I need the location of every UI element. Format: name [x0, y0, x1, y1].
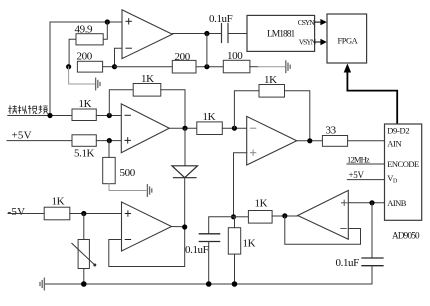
wire ground drop from left-200 junction [69, 67, 95, 84]
svg-text:AIN: AIN [387, 139, 401, 149]
svg-text:500: 500 [120, 167, 136, 179]
text input label 模拟视频 (analog video) [8, 105, 47, 114]
resistor R 200 (mid) [172, 60, 196, 73]
variable resistor RV1 [72, 240, 97, 269]
视 [29, 105, 31, 114]
频 [39, 105, 41, 111]
svg-text:D9-D2: D9-D2 [387, 125, 409, 135]
wire U5 feedback loop [285, 216, 361, 245]
wire diode branch down from U2 output [184, 128, 186, 166]
node U1 output [204, 31, 209, 36]
node U5 input [282, 213, 287, 218]
node center junction [231, 214, 236, 219]
wire U1 output [172, 33, 221, 35]
node minus-row junction [112, 64, 117, 69]
wire 100 to ground [250, 66, 258, 68]
IC U6 LM1881 [247, 15, 317, 51]
wire U2 feedback right down to output [161, 90, 185, 128]
svg-text:LM1881: LM1881 [267, 30, 296, 40]
svg-text:1K: 1K [79, 98, 92, 110]
wire U2 feedback up and over [109, 90, 133, 116]
ground G4 (bottom rail) [40, 278, 44, 290]
wire AD9050 to FPGA with up arrow [347, 70, 397, 124]
svg-text:AINB: AINB [387, 198, 407, 208]
node rail / cap2 [206, 281, 212, 287]
wire AINB junction down to cap [371, 203, 373, 258]
wire var resistor bottom lead [83, 269, 85, 285]
wire 1K to U4 minus [222, 127, 246, 129]
resistor R 49.9 [76, 34, 103, 45]
resistor R 1K -5V [44, 207, 70, 220]
op-amp U4 [247, 116, 297, 165]
node U2 plus [107, 138, 112, 143]
wire long vertical input line [49, 22, 51, 116]
svg-text:200: 200 [175, 51, 191, 63]
wire U3 output [172, 226, 185, 228]
wire U2 output [169, 127, 197, 129]
wire var resistor top lead [83, 214, 85, 240]
wire cap3 down to rail [44, 266, 372, 284]
svg-text:200: 200 [77, 51, 93, 63]
wire 1K vert bottom lead [234, 254, 236, 284]
svg-text:-5V: -5V [8, 206, 26, 218]
wire junction to 1K U5 [234, 216, 249, 218]
resistor R 100 [223, 60, 250, 73]
wire 33 to AIN [348, 140, 385, 142]
svg-text:33: 33 [326, 125, 337, 137]
svg-text:ENCODE: ENCODE [387, 159, 419, 169]
svg-text:1K: 1K [243, 238, 256, 250]
resistor R 1K video [72, 109, 96, 121]
diode D1 [172, 166, 198, 178]
node video/vertical junction [47, 113, 52, 118]
svg-text:1K: 1K [255, 198, 268, 210]
node rail / 1K vertical [232, 281, 238, 287]
svg-text:1K: 1K [141, 73, 154, 85]
wire 5.1K to U2 plus [96, 140, 121, 142]
resistor R 1K U2 feedback [133, 84, 161, 97]
resistor R 1K U2 to U4 [197, 122, 223, 135]
wire U4 plus input jog [234, 153, 247, 217]
wire VSYN arrow to FPGA [315, 39, 327, 45]
svg-text:VSYN: VSYN [299, 38, 317, 47]
svg-text:+5V: +5V [12, 130, 32, 142]
resistor R 33 [322, 136, 347, 147]
wire U4 output [297, 140, 323, 142]
op-amp U5 (mirrored) [298, 190, 349, 239]
svg-text:+5V: +5V [349, 170, 365, 180]
svg-text:1K: 1K [52, 196, 65, 208]
node U2 minus [107, 113, 112, 118]
wire U5 plus to AINB [348, 202, 384, 204]
svg-text:100: 100 [227, 50, 243, 62]
wire -5V row [8, 213, 44, 215]
wire CSYN arrow to FPGA [315, 19, 327, 25]
svg-text:1K: 1K [264, 74, 277, 86]
wire 49.9 right lead up to +input [103, 22, 107, 39]
wire U3 feedback loop [109, 227, 185, 267]
svg-text:12MHz: 12MHz [347, 155, 370, 165]
wire U1 minus input lead [115, 48, 123, 66]
resistor R 1K to U5 [248, 211, 272, 224]
resistor R 5.1K [72, 135, 96, 147]
wire top +input run from vertical to U1 [50, 21, 122, 23]
模 [9, 105, 11, 114]
wire +5V to VD [347, 179, 384, 181]
node U3 output [182, 224, 187, 229]
node at +input / 49.9 tap [105, 19, 110, 24]
resistor R 1K vertical [228, 228, 240, 254]
resistor R 1K U4 feedback [259, 85, 285, 98]
resistor R 500 (vertical) [103, 157, 116, 183]
wire left-200 to minus junction [103, 66, 115, 68]
wire 1K to U2 minus [96, 115, 121, 117]
op-amp U1 [122, 10, 172, 59]
node under U1 output [204, 64, 209, 69]
wire 49.9 left lead down [69, 39, 76, 66]
resistor R 200 (left) [77, 61, 102, 72]
wire junction to cap [209, 217, 234, 234]
svg-text:49.9: 49.9 [75, 24, 94, 36]
ground G1 [96, 78, 100, 90]
wire U4 feedback right down to output [285, 91, 310, 141]
wire C1 to LM1881 [228, 33, 247, 35]
wire 1K vert top lead [234, 217, 236, 228]
node rail / var resistor [81, 281, 87, 287]
node U4 minus [232, 126, 237, 131]
wire +5V row [7, 140, 72, 142]
svg-text:0.1uF: 0.1uF [336, 257, 360, 269]
node U2 output [182, 126, 187, 131]
capacitor C2 0.1uF [199, 234, 219, 242]
wire 200mid to node [196, 66, 223, 68]
svg-text:1K: 1K [203, 111, 216, 123]
node -5V junction [81, 211, 86, 216]
wire 500 top lead [108, 141, 110, 158]
wire diode to U3 output node [184, 178, 186, 227]
ground G2 [286, 61, 290, 73]
node AINB junction [369, 200, 374, 205]
wire minus junction to 200 mid [115, 66, 173, 68]
svg-text:5.1K: 5.1K [74, 148, 95, 160]
ground G3 [147, 185, 151, 197]
svg-text:0.1uF: 0.1uF [209, 13, 233, 25]
IC U7 FPGA [327, 14, 367, 63]
op-amp U3 [122, 202, 172, 251]
wire video input row [8, 115, 72, 117]
svg-text:CSYN: CSYN [298, 18, 316, 27]
wire 500 to ground [109, 184, 146, 191]
op-amp U2 [121, 104, 169, 153]
wire 1K to U3 plus [70, 213, 122, 215]
wire cap to rail [208, 242, 210, 285]
node left 200 junction [66, 64, 71, 69]
node U4 output [307, 138, 312, 143]
wire 12MHz to ENCODE [347, 163, 385, 165]
wire 1K to U5 apex [272, 215, 298, 217]
wire output node down [206, 34, 208, 67]
IC U8 AD9050 [385, 124, 422, 220]
svg-text:FPGA: FPGA [338, 36, 359, 46]
拟 [19, 105, 21, 113]
capacitor C3 0.1uF [362, 258, 383, 266]
svg-text:AD9050: AD9050 [392, 231, 420, 241]
wire U4 feedback up [234, 91, 259, 128]
capacitor C1 0.1uF [222, 24, 229, 43]
svg-text:0.1uF: 0.1uF [185, 244, 209, 256]
